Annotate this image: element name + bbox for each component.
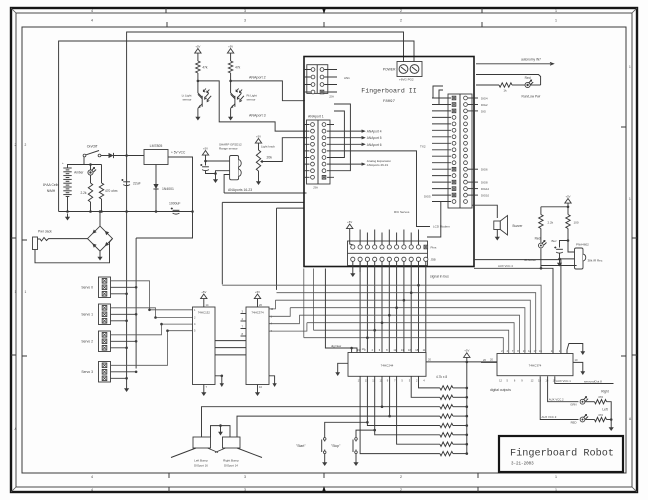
title block box <box>499 436 623 472</box>
H3 row 7 pins <box>432 135 467 139</box>
svg-text:ANAport 4: ANAport 4 <box>367 130 382 134</box>
svg-text:+5V: +5V <box>201 290 206 294</box>
connector Servo 3 <box>99 362 111 383</box>
H3 row 14 pins <box>432 180 467 184</box>
svg-text:47k: 47k <box>235 66 241 70</box>
power jack J6 <box>33 237 38 250</box>
+5V supply <box>347 220 353 232</box>
+5V supply <box>201 290 207 302</box>
LED D6 red <box>580 415 588 422</box>
header J5B servo signal connector <box>348 241 428 266</box>
svg-text:1: 1 <box>555 9 557 13</box>
junction regulator output at rail <box>191 210 194 213</box>
wire servo bus line 3 <box>275 299 404 301</box>
wire servo bus line 4 <box>290 307 396 309</box>
light arrows <box>203 89 206 92</box>
H3 row 17 pins <box>432 200 467 204</box>
resistor R7 470 <box>585 419 595 421</box>
svg-text:47k: 47k <box>202 66 208 70</box>
ground <box>195 114 200 121</box>
wire RN2 to U4 pin <box>411 376 440 397</box>
svg-text:Pins: Pins <box>431 246 437 250</box>
svg-text:POWER: POWER <box>383 68 396 72</box>
svg-text:F8097: F8097 <box>383 100 396 104</box>
svg-text:470: 470 <box>598 395 603 399</box>
svg-text:1N4001: 1N4001 <box>162 187 174 191</box>
J5B column 11 pins <box>424 245 428 261</box>
H3 row 10 pins <box>432 154 467 158</box>
ground at bridge bottom <box>99 251 101 253</box>
svg-text:digital outputs: digital outputs <box>490 388 511 392</box>
svg-text:3: 3 <box>244 19 246 23</box>
connector Servo 0 <box>99 277 111 298</box>
wire H3 bottom bracket <box>427 202 441 238</box>
wire IR module middle pin <box>560 258 577 260</box>
H2 row 5 pins <box>305 149 334 153</box>
wire net dig out to U6 pin 11 <box>474 268 553 353</box>
resistor RN2 4.7k <box>440 395 453 399</box>
svg-text:Buz: Buz <box>552 239 558 243</box>
svg-text:20k: 20k <box>267 156 273 160</box>
pullup rail vertical <box>466 362 468 454</box>
H2 row 2 pins <box>305 129 334 133</box>
svg-text:2.2k: 2.2k <box>548 221 554 225</box>
svg-text:DIG2: DIG2 <box>481 103 488 107</box>
ground at Start <box>322 459 327 466</box>
svg-text:DIGport 14: DIGport 14 <box>224 464 238 468</box>
svg-text:74HC374: 74HC374 <box>251 311 264 315</box>
LED D2 amber <box>88 168 96 176</box>
wire U3 clock feed <box>268 311 270 313</box>
svg-text:1 19: 1 19 <box>360 347 366 351</box>
battery B1 8*AA cells <box>62 161 72 212</box>
resistor R2 470 ohm <box>101 165 103 184</box>
svg-text:ANAport 5: ANAport 5 <box>367 136 382 140</box>
svg-text:signal in bus: signal in bus <box>430 275 449 279</box>
wire servo 2 ground pin to bus A <box>111 347 127 349</box>
wire H3 dig stub row 16 <box>468 194 478 196</box>
Fingerboard II board outline U1 <box>304 57 474 267</box>
light arrows <box>236 89 239 92</box>
svg-text:1: 1 <box>555 475 557 479</box>
wire switch riser row7 <box>360 376 440 453</box>
wire H3 dig stub row 2 <box>468 104 478 106</box>
svg-text:DIG5: DIG5 <box>424 195 431 199</box>
resistor R8 1k <box>499 83 512 87</box>
svg-text:Servo 0: Servo 0 <box>81 286 93 290</box>
pushbutton Start <box>322 438 326 454</box>
ground at Stop <box>353 459 358 466</box>
IC U6 74HC374 box <box>497 354 573 376</box>
junction riser at bump left row <box>381 405 384 408</box>
wire H3 upper riser 1 <box>433 86 443 98</box>
H2 row 4 pins <box>305 142 334 146</box>
svg-text:470 ohm: 470 ohm <box>105 189 118 193</box>
H3 row 6 pins <box>432 128 467 132</box>
svg-text:+ 5V VCC: + 5V VCC <box>171 151 186 155</box>
IC U3 74HC374 box <box>246 307 269 385</box>
svg-text:Amber: Amber <box>74 171 84 175</box>
+5V supply <box>202 146 208 158</box>
wire J5B top stub 8 <box>410 233 412 245</box>
potentiometer R5 20k <box>258 146 260 150</box>
H1 row 1 pins <box>305 68 337 72</box>
svg-text:Fingerboard II: Fingerboard II <box>361 88 416 95</box>
svg-text:J2A: J2A <box>329 95 334 99</box>
bridge rectifier BR1 <box>88 226 113 251</box>
regulator U5 LM7805 box <box>144 150 168 165</box>
wire servo 3 signal <box>111 331 168 366</box>
svg-text:2: 2 <box>400 488 402 492</box>
J5B column 3 pins <box>365 245 369 262</box>
H3 row 13 pins <box>432 174 467 178</box>
svg-text:4: 4 <box>91 475 93 479</box>
svg-text:Pwr Jack: Pwr Jack <box>38 230 52 234</box>
svg-text:LM7805: LM7805 <box>150 144 163 148</box>
wire servo signal drop 9 <box>418 261 420 352</box>
svg-text:4: 4 <box>91 9 93 13</box>
LED D7 IR active red <box>540 229 542 243</box>
svg-text:3: 3 <box>244 475 246 479</box>
+5V supply <box>195 44 201 56</box>
svg-text:1: 1 <box>15 290 17 294</box>
svg-text:servosdOut 8: servosdOut 8 <box>584 379 602 383</box>
J5B column 10 pins <box>416 245 420 262</box>
wire buzzer to ground <box>496 230 498 234</box>
svg-text:DIG4: DIG4 <box>481 96 488 100</box>
ground at light knob <box>256 178 261 185</box>
svg-text:+6VG PG2: +6VG PG2 <box>399 78 414 82</box>
H2 row 9 pins <box>305 175 334 179</box>
resistor R10 100 <box>567 207 569 215</box>
svg-text:Run/Low Pwr: Run/Low Pwr <box>522 95 542 99</box>
phototransistor Q1 <box>198 81 202 97</box>
resistor RN3 4.7k <box>440 405 453 409</box>
wire servo signal drop 3 <box>374 261 376 352</box>
wire servo signal drop 4 <box>381 261 383 352</box>
wire servo bus line 5 <box>299 314 389 316</box>
IC U4 74HC244 box <box>348 353 426 377</box>
wire ANAport 5 stub <box>334 137 364 139</box>
wire +5V to J5B pin1 <box>350 232 353 245</box>
wire J5B top stub 7 <box>403 230 405 245</box>
wire R2 to ground rail <box>101 199 103 212</box>
svg-text:74HC374: 74HC374 <box>529 364 542 368</box>
H3 row 5 pins <box>432 122 467 126</box>
resistor RN8 4.7k <box>440 451 453 455</box>
svg-text:J5B: J5B <box>431 258 436 262</box>
svg-text:1k: 1k <box>503 89 507 93</box>
ground at bump common <box>218 429 223 436</box>
wire bump right net <box>237 416 440 437</box>
junction LED tap <box>89 163 92 166</box>
J5B column 2 pins <box>358 245 362 262</box>
svg-text:1: 1 <box>629 197 631 201</box>
svg-text:1: 1 <box>629 65 631 69</box>
svg-text:Left: Left <box>602 408 607 412</box>
svg-text:4: 4 <box>91 488 93 492</box>
svg-text:AUX VCC.3: AUX VCC.3 <box>542 415 557 419</box>
connector Servo 1 <box>99 304 111 325</box>
svg-text:+5V: +5V <box>255 290 260 294</box>
wire H3 dig stub row 12 <box>468 168 478 170</box>
wire net ANAport 3 from Lt sensor to board <box>198 81 307 131</box>
wire switch riser row6 <box>397 376 440 444</box>
wire aux analog riser A <box>221 202 223 284</box>
phototransistor Q2 body <box>231 93 244 108</box>
junction riser at bump right row <box>388 415 391 418</box>
wire emitter to ground sensor 1 <box>197 108 199 113</box>
H3 row 1 pins <box>432 96 467 100</box>
svg-text:4: 4 <box>91 19 93 23</box>
wire J5B top stub 4 <box>381 233 383 245</box>
wire servo signal drop 8 <box>410 261 412 352</box>
wire Run LED feed with resistor 1k <box>476 84 499 86</box>
wire aux analog riser B <box>276 208 278 290</box>
net label wire ANAports 16-23 <box>224 192 306 194</box>
wire servo 0 ground pin to bus A <box>111 293 127 295</box>
svg-text:DIG: DIG <box>481 109 486 113</box>
wire servo 0 signal <box>111 281 150 310</box>
wire pot bottom to ground <box>258 171 260 178</box>
wire IC3 output pin 1 to bus <box>269 308 290 317</box>
ground at U4 <box>335 369 340 376</box>
wire servo signal drop 5 <box>388 261 390 352</box>
svg-text:DIG10: DIG10 <box>481 194 490 198</box>
ground at U3 spare <box>272 380 276 387</box>
switch Right Bump <box>215 437 262 458</box>
diode D3 1N4001 <box>155 165 157 185</box>
svg-text:+5V: +5V <box>195 44 200 48</box>
wire servo bus line 1 <box>222 284 418 286</box>
U3 data input stubs <box>241 313 247 315</box>
ground at range sensor <box>213 176 218 183</box>
svg-text:4.7k x 8: 4.7k x 8 <box>436 375 447 379</box>
H3 row 9 pins <box>432 148 467 152</box>
resistor RN6 4.7k <box>440 433 453 437</box>
wire servo signal drop 1 <box>359 261 361 352</box>
resistor R9 2.2k <box>540 207 542 215</box>
wire net dig out to U6 pin 1 <box>474 260 561 354</box>
wire IR vcc rail <box>541 206 568 208</box>
wire H3 dig stub row 1 <box>468 97 478 99</box>
wire R6 to ground rail <box>607 402 612 420</box>
IR receiver U7 PNA4602 <box>575 248 586 269</box>
wire servo bus line 6 <box>307 322 382 324</box>
wire AUX VCC.1 servosdOut <box>555 376 614 383</box>
svg-text:+5V: +5V <box>228 44 233 48</box>
wire IC2 input 4 tap <box>168 330 193 332</box>
svg-text:+5V: +5V <box>565 194 570 198</box>
+5V supply <box>254 290 260 302</box>
wire servo 3 ground pin to bus A <box>111 377 127 379</box>
svg-text:+5V: +5V <box>347 220 352 224</box>
svg-text:DIG12: DIG12 <box>481 187 490 191</box>
svg-text:sensor: sensor <box>182 97 191 101</box>
wire net VIN from power switch node to POWER terminal 1 <box>127 32 404 156</box>
svg-text:DIG8: DIG8 <box>481 181 488 185</box>
svg-text:22uF: 22uF <box>133 182 141 186</box>
wire J5B top stub 3 <box>374 230 376 245</box>
wire ANAport 4 stub <box>334 130 364 132</box>
wire U6 pin 10 to ground <box>573 362 583 368</box>
wire switch riser bump right <box>389 376 391 416</box>
wire H2 bracket loop inner <box>334 111 344 158</box>
svg-text:2.2k: 2.2k <box>80 191 86 195</box>
wire J5B top stub 1 <box>359 230 361 245</box>
resistor RN5 4.7k <box>440 423 453 427</box>
wire U4 enable pin 19 jog <box>352 348 357 353</box>
svg-text:Servo 2: Servo 2 <box>81 340 93 344</box>
wire U4 ground pin <box>338 363 348 369</box>
svg-text:3: 3 <box>244 9 246 13</box>
svg-text:PNA4602: PNA4602 <box>576 243 589 247</box>
capacitor C2 1000uF on rail <box>171 208 180 215</box>
svg-text:ANAports 26-31: ANAports 26-31 <box>367 163 389 167</box>
wire bump common ground stub <box>220 426 222 429</box>
svg-text:Right: Right <box>601 390 609 394</box>
diode D1 polarity protect <box>109 153 114 158</box>
svg-text:38k IR Rec: 38k IR Rec <box>588 259 603 263</box>
wire J5B top stub 2 <box>366 233 368 245</box>
wire R7 to ground <box>607 419 612 421</box>
wire TX2 drop to modem port <box>334 151 430 227</box>
ground at U6 clock <box>580 348 585 355</box>
wire switch left leg <box>83 156 85 165</box>
wire H3 upper riser 2 <box>439 90 443 105</box>
wire servo 1 signal <box>111 308 156 318</box>
wire servo 1 ground pin to bus A <box>111 320 127 322</box>
zone tick marks top <box>166 8 482 27</box>
wire ANAport 6 stub <box>334 143 364 145</box>
svg-text:Red: Red <box>535 237 541 241</box>
svg-text:TX2: TX2 <box>420 145 426 149</box>
svg-text:Servo 1: Servo 1 <box>81 313 93 317</box>
capacitor C1 22uF on bus A <box>121 179 130 186</box>
H2 row 1 pins <box>305 123 334 127</box>
wire U4 enable tie <box>325 269 351 353</box>
+5V supply <box>464 349 470 361</box>
svg-text:sensor: sensor <box>247 97 256 101</box>
svg-text:DIG6: DIG6 <box>481 168 488 172</box>
wire IR bypass cap branch <box>560 241 569 248</box>
wire U3 ground pin <box>257 385 259 390</box>
svg-text:J3A: J3A <box>313 186 318 190</box>
wire C5 to ground node <box>559 253 561 259</box>
wire J5B ground pin <box>352 261 354 270</box>
svg-text:ANAport 1: ANAport 1 <box>308 115 324 119</box>
H3 row 12 pins <box>432 167 467 171</box>
phototransistor Q1 body <box>198 93 211 108</box>
wire U6 left pin 20 <box>481 361 497 363</box>
+5V supply <box>565 194 571 206</box>
resistor RN7 4.7k <box>440 442 453 446</box>
ground at buzzer <box>495 234 500 241</box>
svg-text:2: 2 <box>400 475 402 479</box>
wire servo 3 power pin to bus B <box>111 371 137 373</box>
LED D5 green <box>580 397 588 404</box>
wire RN1 to U4 pin <box>419 376 440 388</box>
ground at U2 spare <box>220 380 224 387</box>
resistor RN1 4.7k <box>440 386 453 390</box>
svg-text:GRN: GRN <box>570 403 576 407</box>
wire J5B top stub 5 <box>388 230 390 245</box>
svg-text:RED: RED <box>571 421 577 425</box>
junction sensor 2 output node <box>229 80 232 83</box>
wire servo 0 power pin to bus B <box>111 286 137 288</box>
wire servo signal drop 6 <box>396 261 398 352</box>
wire H2 bracket loop outer <box>334 104 350 171</box>
svg-text:+5V: +5V <box>464 349 469 353</box>
wire R1 to ground rail <box>90 202 92 212</box>
wire LED ground stem <box>610 420 612 425</box>
ground <box>124 385 129 392</box>
wire Start to ground <box>324 454 326 459</box>
wire AUX VCC.3 to left LED <box>540 376 578 419</box>
wire servo signal drop 7 <box>403 261 405 352</box>
svg-text:470: 470 <box>598 413 603 417</box>
svg-text:NiMH: NiMH <box>47 189 56 193</box>
svg-text:"Start": "Start" <box>296 444 306 448</box>
ground at U2 <box>201 389 206 396</box>
svg-text:ANAport 2: ANAport 2 <box>249 76 266 80</box>
ground at IR module <box>557 260 562 267</box>
wire H3 dig stub row 15 <box>468 188 478 190</box>
wire U2 ground pin <box>203 385 205 390</box>
+5V supply <box>255 134 261 146</box>
wire servo 2 signal <box>111 324 162 335</box>
H3 row 4 pins <box>432 116 467 120</box>
wire servo 2 power pin to bus B <box>111 340 137 342</box>
H3 row 2 pins <box>432 103 467 107</box>
switch S1 On/Off <box>83 151 101 157</box>
svg-text:On/Off: On/Off <box>87 145 98 149</box>
ground at LEDs <box>609 424 614 431</box>
wire +5V to range sensor connector <box>206 158 230 161</box>
J5B column 4 pins <box>373 245 377 262</box>
wire servo signal drop 2 <box>366 261 368 352</box>
H2 row 3 pins <box>305 136 334 140</box>
svg-text:1: 1 <box>555 488 557 492</box>
wire LED top to battery rail <box>90 165 92 170</box>
svg-text:8*AA Cells: 8*AA Cells <box>43 183 59 187</box>
wire Run LED return <box>476 75 541 86</box>
wire aux analog feed B <box>277 207 305 209</box>
wire IC3 output pin 11 to bus <box>269 300 275 309</box>
J5B column 7 pins <box>395 245 399 262</box>
pushbutton Stop <box>353 438 357 454</box>
wire net GND loop to POWER terminal 2 <box>59 41 414 212</box>
svg-text:74HC132: 74HC132 <box>198 311 211 315</box>
wire servo 1 power pin to bus B <box>111 313 137 315</box>
svg-text:Right Bump: Right Bump <box>223 459 239 463</box>
wire 100 resistor to IR module <box>568 229 577 253</box>
wire U2 spare gate tie <box>215 376 222 380</box>
junction range sensor vcc <box>204 160 207 163</box>
H2 row 8 pins <box>305 169 334 173</box>
wire U3 spare tie <box>269 376 275 380</box>
wire switch riser bump left <box>381 376 383 406</box>
wire analog expansion stub <box>334 163 364 165</box>
H3 row 8 pins <box>432 141 467 145</box>
wire switch riser stop row <box>375 376 440 435</box>
J5B column 6 pins <box>387 245 391 262</box>
svg-text:100: 100 <box>574 221 579 225</box>
ground <box>228 114 233 121</box>
H1 row 2 pins <box>305 75 337 79</box>
phototransistor Q2 <box>231 81 235 97</box>
H2 row 7 pins <box>305 162 334 166</box>
